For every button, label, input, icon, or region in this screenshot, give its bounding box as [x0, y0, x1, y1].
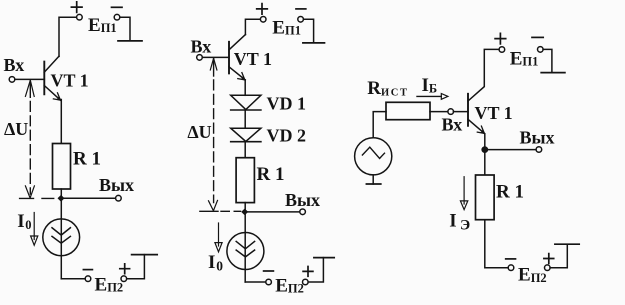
svg-text:R 1: R 1 [496, 182, 524, 203]
svg-text:Вх: Вх [442, 115, 463, 135]
svg-text:0: 0 [216, 259, 223, 274]
svg-text:0: 0 [25, 218, 31, 232]
svg-text:VD 2: VD 2 [267, 125, 307, 145]
svg-text:Э: Э [460, 218, 470, 234]
svg-text:VT 1: VT 1 [234, 49, 272, 69]
svg-text:ΔU: ΔU [187, 122, 211, 142]
svg-text:ΔU: ΔU [4, 119, 28, 139]
svg-text:Вых: Вых [520, 128, 555, 148]
svg-text:I: I [17, 211, 24, 232]
svg-text:R 1: R 1 [257, 164, 285, 185]
svg-text:Вх: Вх [191, 36, 212, 56]
svg-text:Вх: Вх [4, 55, 25, 75]
svg-text:I: I [449, 210, 456, 231]
svg-text:VT 1: VT 1 [51, 70, 89, 90]
svg-text:VT 1: VT 1 [475, 103, 513, 123]
svg-text:VD 1: VD 1 [267, 93, 307, 113]
svg-text:Вых: Вых [285, 190, 320, 210]
svg-text:R 1: R 1 [73, 149, 101, 170]
svg-text:I: I [208, 252, 215, 273]
svg-text:Вых: Вых [99, 175, 134, 195]
